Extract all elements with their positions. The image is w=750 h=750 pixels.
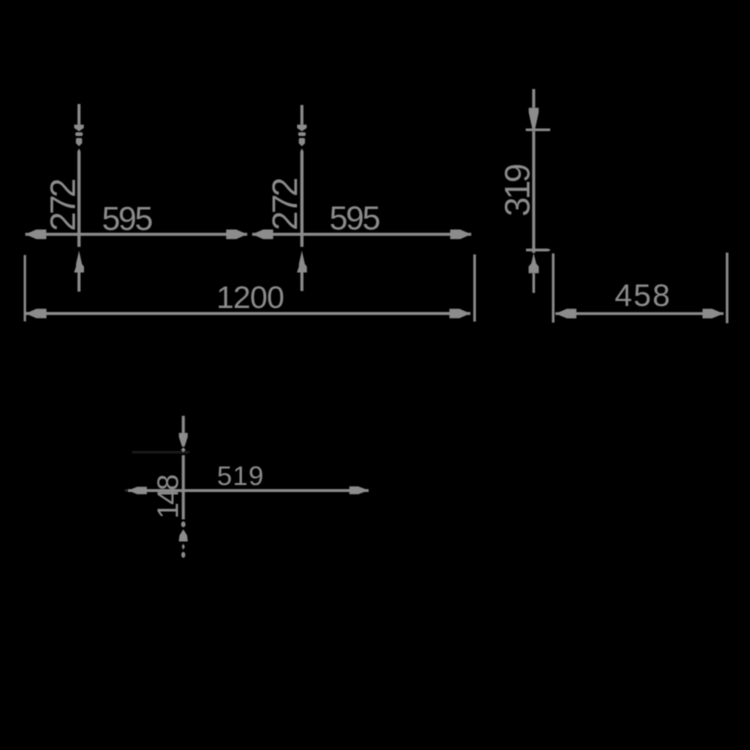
model edge (dark tick) [132,451,189,453]
dim 458: dimension line [555,312,723,315]
dim group 4: down arrowhead [179,433,188,447]
svg-text:519: 519 [217,461,264,491]
dim group 3: upper tick [526,129,551,132]
dim group 1: 595 left arrowhead [25,230,46,240]
dim group 2: down arrowhead [297,125,307,132]
svg-text:319: 319 [499,165,538,217]
dim 519: right arrowhead [349,486,368,494]
svg-text:272: 272 [44,180,83,232]
dim group 4: small diamond at tick [181,447,186,452]
dim group 4: up arrow blob [179,530,187,541]
dim 458: right arrowhead [703,309,724,319]
dim group 2: vertical tail [300,273,303,292]
dim 458: left extension line [552,253,555,322]
dim group 3: vertical tail [532,273,535,293]
dim 458: right extension line [726,253,729,324]
dim group 1: down arrowhead [74,125,84,132]
dim group 1: break blob [76,138,82,146]
dim group 1: up arrowhead below 595 line [74,251,84,273]
dim group 4: centerline dot 2 [181,552,185,558]
dim group 2: up arrowhead below 595 line [297,251,307,273]
dim group 1: 595 dimension line [25,233,247,236]
dim group 3: vertical 319 line main segment [532,131,535,253]
dim group 1: vertical 272 line upper segment [78,104,81,125]
dim group 4: vertical 148 line upper segment [182,416,185,433]
dim 1200: right arrowhead [449,309,470,319]
svg-text:595: 595 [102,200,152,237]
dim group 1: vertical 272 line main segment [77,148,80,247]
dim group 2: 595 dimension line [252,233,471,236]
svg-text:148: 148 [152,474,185,518]
dim 1200: dimension line [26,312,471,315]
dim group 2: 595 right arrowhead [450,230,471,240]
dim group 4: vertical 148 line main segment [182,455,185,519]
dim group 3: vertical 319 line upper segment [532,89,535,108]
dim 519: dimension line [128,489,369,492]
dim group 2: vertical 272 line main segment [300,148,303,247]
dim 1200: left arrowhead [26,309,47,319]
dim group 1: vertical tail [78,273,81,292]
dim group 2: vertical 272 line upper segment [300,105,303,125]
dim group 3: down arrowhead [529,108,539,129]
dim group 3: lower tick [526,249,551,252]
dim group 1: 595 right arrowhead [226,230,247,240]
dim 519: dark dot left of arrow [125,489,128,492]
svg-text:595: 595 [329,199,379,236]
svg-text:1200: 1200 [216,279,283,315]
dim group 1: break dash [75,132,83,136]
dim group 2: break blob [299,138,305,146]
dim group 2: break dash [298,132,306,136]
dim 1200: right extension line [473,254,476,321]
dim group 2: 595 left arrowhead [252,230,273,240]
dim 519: left arrowhead [128,487,147,495]
dim 1200: left extension line [24,255,26,321]
dim group 4: centerline dot 1 [181,521,185,527]
svg-text:272: 272 [266,179,305,231]
svg-text:458: 458 [615,277,672,313]
dim 458: left arrowhead [555,309,576,319]
dim group 4: centerline diamond [182,544,185,550]
dim group 3: up arrowhead [529,253,539,273]
